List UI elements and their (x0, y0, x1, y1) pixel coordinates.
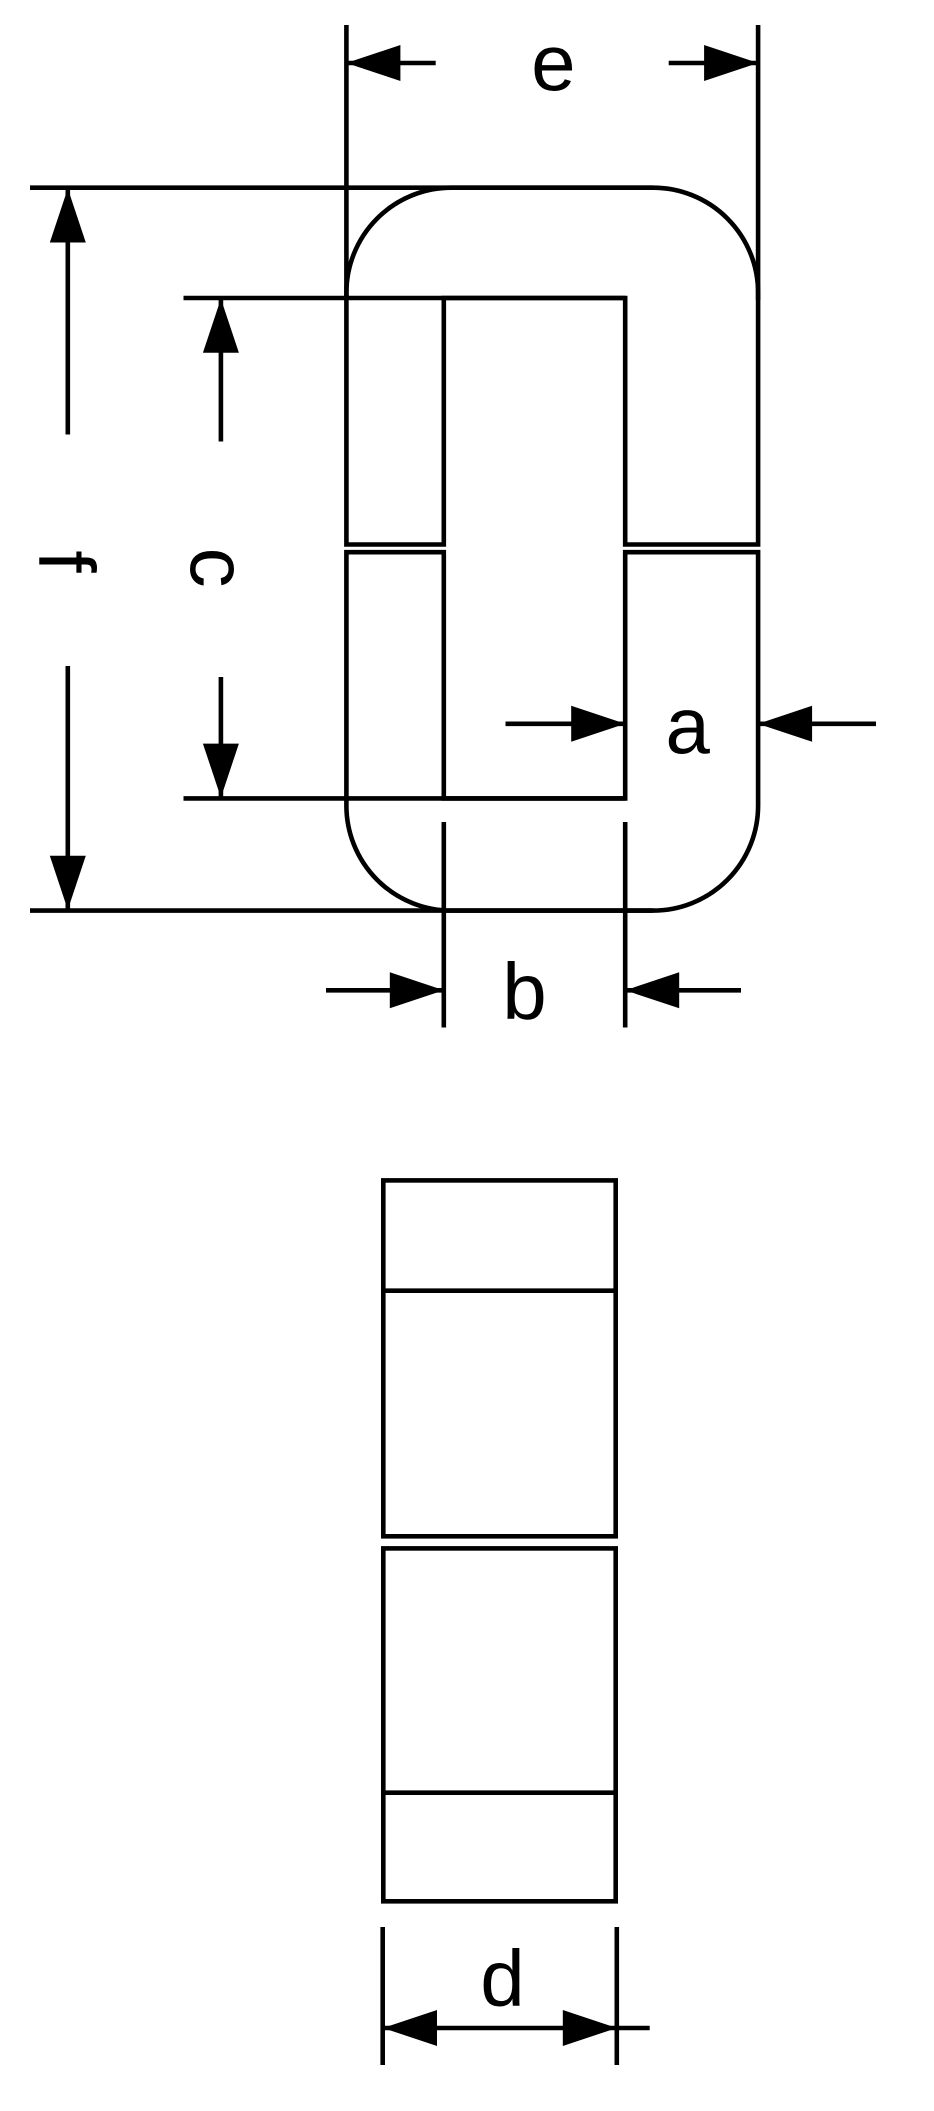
dimension f line upper (66, 189, 71, 435)
arrowhead d right (563, 2010, 617, 2046)
side view lower piece yoke line (383, 1790, 615, 1795)
arrowhead f top (50, 189, 86, 243)
arrowhead b right (625, 972, 679, 1008)
dimension c line upper (219, 299, 224, 442)
dimension b line left (326, 988, 444, 993)
svg-text:c: c (174, 548, 263, 588)
extension line c top (184, 296, 626, 301)
dimension a line left (506, 721, 626, 726)
dimension d line (383, 2026, 650, 2031)
arrowhead f bottom (50, 856, 86, 910)
extension line c bottom (184, 796, 626, 801)
extension line e left (344, 25, 349, 300)
svg-text:b: b (502, 947, 547, 1036)
extension line top (f) (30, 185, 653, 190)
dimension b line right (625, 988, 741, 993)
arrowhead a left (571, 706, 625, 742)
dimension f line lower (66, 666, 71, 910)
U-core top piece outline (346, 188, 758, 545)
dimension e line right (669, 61, 758, 66)
side view lower piece rectangle (383, 1548, 615, 1901)
arrowhead b left (390, 972, 444, 1008)
extension line d right (614, 1927, 619, 2065)
side view upper piece rectangle (383, 1180, 615, 1536)
svg-text:a: a (665, 681, 710, 770)
U-core bottom piece outline (346, 552, 758, 910)
dimension a line right (758, 721, 876, 726)
svg-text:f: f (22, 550, 111, 573)
extension line e right (756, 25, 761, 300)
extension line b left (441, 822, 446, 1028)
arrowhead c bottom (203, 744, 239, 798)
arrowhead e right (704, 45, 758, 81)
extension line bottom (f) (30, 908, 653, 913)
dimension c line lower (219, 677, 224, 797)
arrowhead d left (383, 2010, 437, 2046)
arrowhead a right (758, 706, 812, 742)
svg-text:e: e (531, 18, 576, 107)
side view upper piece yoke line (383, 1288, 615, 1293)
svg-text:d: d (480, 1934, 525, 2023)
dimension e line left (346, 61, 435, 66)
arrowhead c top (203, 299, 239, 353)
arrowhead e left (346, 45, 400, 81)
extension line d left (380, 1927, 385, 2065)
extension line b right (623, 822, 628, 1028)
